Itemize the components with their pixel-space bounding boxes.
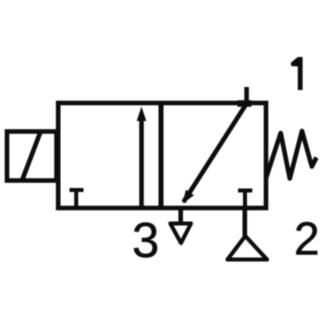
port 1 label (291, 57, 303, 90)
port 3 exhaust stub wire (178, 208, 183, 224)
position divider (159, 103, 164, 208)
flow arrow position a (vertical, up) (137, 107, 147, 209)
port 2 triangle (227, 236, 269, 260)
blocked port T position b (238, 191, 252, 209)
wire junction at port 1 / top edge (238, 100, 252, 107)
port 2 stub wire (243, 208, 248, 236)
flow arrow position b (diagonal, down-left) (183, 104, 247, 204)
svg-text:2: 2 (294, 213, 320, 265)
svg-text:3: 3 (132, 214, 159, 268)
port 2 label (294, 213, 320, 265)
port 3 label (132, 214, 159, 268)
solenoid diagonal stroke (22, 131, 41, 181)
return spring (266, 131, 317, 179)
port 3 exhaust triangle (170, 224, 191, 244)
port 1 stub wire (244, 87, 249, 104)
blocked port T position a (70, 190, 84, 208)
solenoid actuator box (7, 132, 57, 181)
valve body outline (58, 103, 266, 208)
